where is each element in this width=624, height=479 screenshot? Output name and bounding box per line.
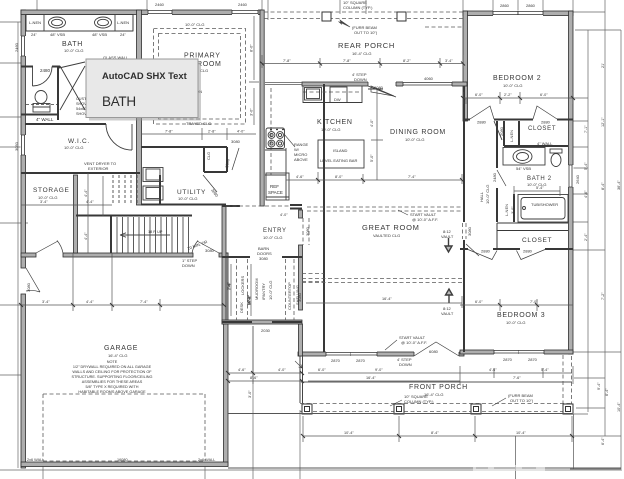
svg-text:7'-2": 7'-2"	[601, 292, 605, 300]
svg-text:3'-0": 3'-0"	[250, 108, 254, 116]
svg-text:3080: 3080	[305, 226, 310, 236]
entry cased opening dashed	[226, 205, 290, 207]
svg-text:FRONT PORCH: FRONT PORCH	[409, 384, 468, 391]
wall wic bottom	[21, 172, 140, 174]
right side dim verticals	[588, 12, 621, 469]
wall great room front	[298, 352, 464, 356]
entry east door dashed	[303, 218, 309, 245]
label range	[284, 134, 295, 147]
tooltip box	[86, 59, 198, 118]
wall laundry closet	[203, 147, 227, 172]
svg-text:3'-4": 3'-4"	[42, 300, 50, 304]
wall water closet east	[57, 66, 59, 120]
svg-text:16'-4": 16'-4"	[382, 297, 392, 301]
vault line dashed lower	[302, 279, 462, 283]
storage dim row	[21, 173, 112, 253]
window primary 2460 a	[148, 10, 172, 16]
svg-text:2860: 2860	[526, 3, 536, 8]
svg-text:CLOSET: CLOSET	[528, 126, 556, 132]
svg-text:7'-8": 7'-8"	[283, 59, 291, 63]
rear porch dim row	[262, 55, 463, 68]
french door chevron greatroom	[414, 342, 459, 356]
svg-text:4'-0": 4'-0"	[280, 213, 288, 217]
svg-text:REF: REF	[270, 184, 279, 189]
svg-text:3080: 3080	[26, 282, 31, 292]
svg-text:ABOVE: ABOVE	[294, 157, 308, 162]
svg-text:L-NEN: L-NEN	[509, 130, 514, 142]
svg-text:2880: 2880	[481, 249, 491, 254]
front porch column d	[563, 404, 573, 414]
svg-text:6080: 6080	[374, 85, 384, 90]
window bedroom2 2860 b	[518, 11, 543, 17]
svg-text:2860: 2860	[500, 3, 510, 8]
svg-text:10'-0" CLG: 10'-0" CLG	[263, 235, 283, 240]
svg-text:L-NEN: L-NEN	[117, 20, 129, 25]
svg-text:DOWN: DOWN	[182, 263, 195, 268]
wall bedroom2 top	[463, 11, 573, 16]
svg-text:3080: 3080	[259, 256, 269, 261]
wall utility bottom	[141, 204, 226, 206]
svg-text:2x6 WALL: 2x6 WALL	[198, 458, 215, 462]
svg-text:REAR PORCH: REAR PORCH	[338, 41, 395, 50]
svg-text:10'-0" CLG: 10'-0" CLG	[64, 48, 84, 53]
svg-text:10'-2": 10'-2"	[247, 295, 251, 305]
svg-text:5/8" TYPE X REQUIRED WITH: 5/8" TYPE X REQUIRED WITH	[86, 385, 139, 389]
door greatroom french 6080 opening	[414, 352, 459, 357]
svg-text:/PANTRY: /PANTRY	[261, 283, 266, 300]
front porch dim row bottom	[303, 416, 572, 442]
svg-text:L-NEN: L-NEN	[504, 204, 509, 216]
svg-text:4" WALL: 4" WALL	[537, 141, 553, 146]
svg-text:2'-2": 2'-2"	[504, 93, 512, 97]
kitchen range counter	[265, 148, 286, 175]
door utility 3080	[203, 175, 217, 192]
vault arrow down	[445, 238, 452, 252]
svg-text:16'-4" CLG: 16'-4" CLG	[352, 51, 372, 56]
svg-text:TUB/SHOWER: TUB/SHOWER	[531, 202, 558, 207]
garage dim row	[21, 253, 224, 311]
svg-text:8'-4": 8'-4"	[601, 182, 605, 190]
svg-text:9'-4": 9'-4"	[597, 382, 601, 390]
svg-text:7'-4": 7'-4"	[140, 300, 148, 304]
svg-text:10'-0" CLG: 10'-0" CLG	[321, 127, 341, 132]
svg-text:2x6 WALL: 2x6 WALL	[27, 458, 44, 462]
door garage service left	[26, 268, 40, 292]
svg-text:2870: 2870	[331, 358, 341, 363]
svg-text:CLOSET: CLOSET	[522, 237, 552, 244]
svg-text:2'-4": 2'-4"	[584, 233, 588, 241]
primary wing right dim	[249, 16, 259, 125]
wall utility east	[159, 175, 161, 204]
left edge extension ticks	[0, 22, 28, 375]
svg-text:ISLAND: ISLAND	[333, 148, 348, 153]
svg-text:2080: 2080	[499, 126, 504, 136]
left veneer line	[17, 22, 19, 468]
svg-text:STRUCTURE. SUPPORTING FLOOR/CE: STRUCTURE. SUPPORTING FLOOR/CEILING	[72, 375, 153, 379]
svg-text:4'-0": 4'-0"	[237, 130, 245, 134]
svg-text:2480: 2480	[40, 68, 51, 73]
svg-text:2870: 2870	[356, 358, 366, 363]
rear porch step edge	[265, 83, 302, 85]
dining vertical dim	[371, 88, 383, 180]
svg-text:2460: 2460	[155, 2, 165, 7]
svg-text:8'-4": 8'-4"	[431, 431, 439, 435]
sink oval bath1 b	[95, 17, 112, 28]
linen box right	[115, 15, 133, 32]
wall great room west	[323, 84, 325, 352]
svg-text:5'-4": 5'-4"	[541, 368, 549, 372]
svg-text:ASSEMBLIES FOR THESE AREAS: ASSEMBLIES FOR THESE AREAS	[82, 380, 143, 384]
rear sliding door leaf	[368, 86, 396, 97]
svg-text:COLUMN (TYP.): COLUMN (TYP.)	[404, 399, 434, 404]
svg-text:4'-0": 4'-0"	[278, 368, 286, 372]
kitchen dw	[330, 87, 347, 103]
wall primary/kitchen divider	[260, 10, 264, 206]
toilet bath1	[35, 91, 47, 104]
svg-text:10'-0" CLG: 10'-0" CLG	[485, 184, 490, 204]
svg-text:10'-4": 10'-4"	[344, 431, 354, 435]
front porch column a	[302, 404, 312, 414]
tub shower	[518, 195, 568, 223]
svg-text:OUT TO 10"): OUT TO 10")	[354, 30, 378, 35]
wall mudroom right / entry right	[299, 210, 303, 218]
svg-text:10'-0" CLG: 10'-0" CLG	[268, 280, 273, 300]
svg-text:7'-8": 7'-8"	[343, 59, 351, 63]
tray ceiling primary inner	[159, 34, 241, 120]
kitchen upper cabinets dashed	[271, 88, 362, 175]
wall bedroom3 front	[460, 350, 573, 354]
rear porch column b	[397, 12, 406, 21]
svg-text:10'-0" CLG: 10'-0" CLG	[185, 22, 205, 27]
svg-text:HALL: HALL	[479, 191, 484, 202]
svg-text:8'-0": 8'-0"	[250, 44, 254, 52]
svg-text:4'-6": 4'-6"	[584, 190, 588, 198]
svg-text:TRAYED CLG: TRAYED CLG	[186, 121, 211, 126]
svg-text:18 R UP: 18 R UP	[148, 230, 163, 234]
sink oval bath1 a	[49, 17, 66, 28]
svg-text:3080: 3080	[210, 188, 220, 199]
stoop side wall to porch	[300, 356, 303, 403]
svg-text:5'-0": 5'-0"	[370, 154, 374, 162]
svg-text:NOTE: NOTE	[107, 360, 118, 364]
svg-text:GARAGE: GARAGE	[104, 345, 138, 352]
svg-text:CLG: CLG	[206, 152, 211, 160]
svg-text:DOWN: DOWN	[399, 362, 412, 367]
wall garage bottom	[21, 462, 228, 467]
svg-text:24": 24"	[120, 32, 126, 37]
svg-text:3080: 3080	[231, 139, 241, 144]
rear porch ceiling dashed right part	[425, 26, 463, 28]
svg-text:L-NEN: L-NEN	[29, 20, 41, 25]
wall garage right	[224, 253, 229, 466]
svg-text:54x60: 54x60	[76, 107, 86, 111]
svg-text:36'-4": 36'-4"	[617, 180, 621, 190]
svg-text:6'-0": 6'-0"	[475, 300, 483, 304]
wall mudroom left	[222, 206, 226, 324]
svg-text:6080: 6080	[429, 349, 439, 354]
svg-text:ENTRY: ENTRY	[263, 228, 287, 234]
bottom ground line	[0, 469, 622, 471]
svg-text:DESK: DESK	[239, 302, 244, 313]
door closet 2080	[232, 148, 239, 170]
wall garage top	[21, 253, 36, 257]
mudroom inner dims	[231, 264, 251, 316]
svg-text:DINING ROOM: DINING ROOM	[390, 129, 446, 136]
wall entry top	[222, 205, 302, 209]
svg-text:KITCHEN: KITCHEN	[317, 119, 353, 126]
wall stair top	[76, 215, 192, 217]
door closet3 b	[517, 250, 546, 260]
window bedroom3 2870 a	[494, 350, 519, 355]
svg-text:5'-4": 5'-4"	[584, 162, 588, 170]
window primary 2460 b	[232, 10, 258, 16]
svg-text:3080: 3080	[467, 226, 472, 236]
svg-text:5'-4": 5'-4"	[536, 186, 544, 190]
top extension verticals	[37, 0, 366, 20]
svg-text:7'-1": 7'-1"	[584, 125, 588, 133]
door kitchen pantry 3080	[371, 86, 394, 96]
laundry dryer box	[143, 168, 163, 182]
wc vanity	[33, 107, 50, 112]
svg-text:3'-0": 3'-0"	[511, 206, 515, 214]
svg-text:6'-0": 6'-0"	[475, 93, 483, 97]
svg-text:8'-6": 8'-6"	[250, 376, 258, 380]
wall storage right	[74, 175, 78, 253]
mudroom lockers dashed	[237, 259, 248, 320]
svg-text:3080: 3080	[205, 248, 215, 253]
svg-text:VAULT: VAULT	[441, 234, 454, 239]
svg-text:16'-4": 16'-4"	[366, 376, 376, 380]
svg-text:10'-4": 10'-4"	[617, 402, 621, 412]
svg-text:2880: 2880	[541, 120, 551, 125]
wall mudroom bottom opening	[222, 321, 302, 323]
bath2 vanity	[503, 148, 545, 166]
svg-text:4'-4": 4'-4"	[84, 232, 88, 240]
svg-text:12'-1": 12'-1"	[601, 117, 605, 127]
wall bath south (water closet top)	[21, 66, 60, 68]
door rear sliding 6080 opening	[368, 82, 396, 87]
wall bath2 bottom / closet3 top	[497, 223, 568, 249]
wall rear of main house (behind porch)	[302, 82, 467, 86]
svg-text:2480: 2480	[492, 172, 497, 182]
svg-text:2880: 2880	[477, 120, 487, 125]
svg-text:VAULTED CLG: VAULTED CLG	[373, 233, 400, 238]
svg-text:BATH: BATH	[102, 94, 136, 109]
wall top (primary suite rear)	[21, 10, 262, 15]
svg-text:4'-6": 4'-6"	[238, 368, 246, 372]
svg-text:@ 10'-0" A.F.F.: @ 10'-0" A.F.F.	[412, 217, 438, 222]
tray ceiling primary outer	[154, 29, 246, 125]
vanity bath1 counter	[26, 15, 133, 32]
svg-text:7'-6": 7'-6"	[513, 376, 521, 380]
svg-text:8'-2": 8'-2"	[403, 59, 411, 63]
wall mudroom top w/ barn door opening	[222, 256, 302, 258]
svg-text:24": 24"	[31, 32, 37, 37]
utility top dim	[141, 128, 256, 140]
svg-text:UTILITY: UTILITY	[177, 189, 206, 196]
vault line dashed upper	[307, 207, 462, 211]
wall water closet bottom	[21, 114, 59, 116]
wall bath/primary divider	[137, 10, 142, 205]
door garage entry (from storage hall)	[36, 241, 63, 254]
kitchen island dim row	[286, 172, 462, 184]
kitchen sink	[305, 88, 322, 101]
window bath left 2460	[21, 36, 27, 56]
front porch dim rows top	[308, 366, 574, 479]
svg-text:4060: 4060	[424, 76, 434, 81]
svg-text:MUDROOM: MUDROOM	[254, 278, 259, 300]
svg-text:BEDROOM 3: BEDROOM 3	[497, 312, 545, 319]
svg-text:BATH: BATH	[62, 41, 83, 48]
door arc wic	[106, 124, 132, 150]
svg-text:PRIMARY: PRIMARY	[184, 53, 221, 60]
wall bath2 west	[496, 121, 498, 222]
svg-text:4'-0": 4'-0"	[370, 119, 374, 127]
laundry washer box	[143, 186, 163, 200]
svg-text:3050: 3050	[14, 141, 19, 151]
svg-text:4'-4": 4'-4"	[86, 300, 94, 304]
svg-text:21': 21'	[601, 63, 605, 68]
stoop corner arrow	[295, 361, 302, 368]
svg-text:6'-0": 6'-0"	[540, 93, 548, 97]
svg-text:10'-0" CLG: 10'-0" CLG	[405, 137, 425, 142]
svg-text:@ 10'-0" A.F.F.: @ 10'-0" A.F.F.	[401, 340, 427, 345]
wall left exterior	[21, 10, 26, 268]
svg-text:10'-0" CLG: 10'-0" CLG	[64, 145, 84, 150]
svg-text:DW: DW	[334, 97, 341, 102]
svg-text:6'-4": 6'-4"	[601, 437, 605, 445]
svg-text:AutoCAD SHX Text: AutoCAD SHX Text	[102, 70, 187, 81]
svg-text:W.I.C.: W.I.C.	[68, 138, 90, 145]
bath2 toilet	[551, 154, 561, 167]
wall closet3 bottom w/ 2 door openings	[460, 248, 573, 250]
verticals below garage	[43, 326, 300, 479]
svg-text:48" VSB: 48" VSB	[92, 32, 107, 37]
svg-text:2030: 2030	[261, 328, 271, 333]
window bedroom2 2860 a	[493, 11, 518, 17]
svg-text:10'-4": 10'-4"	[516, 431, 526, 435]
watermark	[473, 465, 545, 471]
range w burners	[266, 128, 285, 149]
bath2 inner dim	[514, 186, 560, 196]
door closet3 a	[468, 250, 497, 260]
svg-text:4'-4": 4'-4"	[84, 189, 88, 197]
tooltip shadow	[89, 62, 201, 121]
svg-text:7'-4": 7'-4"	[227, 282, 231, 290]
stair direction arrow	[120, 233, 170, 237]
svg-text:16'-4" CLG: 16'-4" CLG	[108, 353, 128, 358]
shower glass diagonal	[59, 62, 85, 110]
stair dashed upper run	[113, 175, 137, 204]
svg-text:COUNTERTOP: COUNTERTOP	[287, 282, 292, 310]
kitchen island	[318, 140, 364, 168]
window rear 4060	[403, 82, 452, 87]
svg-text:SPACE: SPACE	[268, 190, 283, 195]
svg-text:HABITABLE ROOMS ABOVE GARAGE: HABITABLE ROOMS ABOVE GARAGE	[78, 390, 146, 394]
wall utility top	[141, 146, 203, 148]
svg-text:BEDROOM 2: BEDROOM 2	[493, 75, 541, 82]
svg-text:54" VSB: 54" VSB	[516, 166, 531, 171]
svg-text:2'-8": 2'-8"	[208, 130, 216, 134]
bath2 sink oval	[513, 150, 532, 164]
wall linen/closet dividers (bed2)	[504, 121, 519, 146]
svg-text:4" WALL: 4" WALL	[36, 117, 54, 122]
svg-text:LOCKERS: LOCKERS	[240, 276, 245, 295]
svg-text:7'-8": 7'-8"	[165, 130, 173, 134]
ref space box	[266, 173, 289, 200]
door arc bedroom2 a	[470, 106, 494, 119]
rear porch column a	[322, 12, 331, 21]
front porch beam dashed	[300, 356, 572, 413]
hall pocket door dashed	[463, 223, 467, 239]
svg-text:EXTERIOR: EXTERIOR	[88, 166, 109, 171]
svg-text:DOWN: DOWN	[354, 77, 367, 82]
front porch slab lines	[228, 382, 621, 468]
bedroom3 dim row	[460, 299, 573, 311]
front porch column c	[471, 404, 481, 414]
svg-text:2080: 2080	[224, 158, 231, 168]
hall top dim	[465, 98, 467, 104]
wall stair left	[110, 215, 112, 253]
garage door dashed rect	[43, 394, 205, 461]
door leaf linen2	[494, 121, 502, 140]
svg-text:6'-4": 6'-4"	[605, 388, 609, 396]
svg-text:3'-4": 3'-4"	[445, 59, 453, 63]
svg-text:4'-6": 4'-6"	[296, 175, 304, 179]
stoop dim rows	[228, 326, 302, 384]
svg-text:WALLS AND CEILING FOR PROTECTI: WALLS AND CEILING FOR PROTECTION OF	[72, 370, 152, 374]
window greatroom 2870 a	[326, 352, 351, 357]
svg-text:3'-4": 3'-4"	[40, 200, 48, 204]
top-right extension verticals	[463, 0, 605, 13]
linen box left	[26, 15, 44, 32]
stair treads (up run)	[117, 217, 189, 253]
svg-text:VAULT: VAULT	[441, 311, 454, 316]
mudroom countertop/shelving dashed	[286, 259, 295, 320]
wall bedroom2 bottom	[463, 119, 573, 121]
svg-text:7'-0": 7'-0"	[530, 300, 538, 304]
svg-text:SHELVING: SHELVING	[295, 285, 300, 305]
svg-text:LEVEL EATING BAR: LEVEL EATING BAR	[320, 158, 357, 163]
wall right exterior	[569, 11, 574, 354]
svg-text:2640: 2640	[575, 174, 580, 184]
svg-text:OUT TO 10"): OUT TO 10")	[510, 398, 534, 403]
wall stoop top (mudroom bottom)	[222, 320, 302, 324]
bedroom2 dim row	[463, 92, 573, 104]
svg-text:2870: 2870	[528, 357, 538, 362]
window wic left 3050	[21, 135, 27, 155]
wall hall/dining east	[463, 86, 465, 352]
svg-text:CLG: CLG	[200, 68, 208, 73]
svg-text:16080: 16080	[117, 458, 128, 462]
door bedroom3	[466, 244, 479, 256]
window greatroom 2870 b	[351, 352, 377, 357]
svg-text:2460: 2460	[238, 2, 248, 7]
door garage 20min	[192, 241, 219, 254]
front porch column b	[394, 404, 404, 414]
svg-text:48" VSB: 48" VSB	[50, 32, 65, 37]
vault arrow up	[446, 289, 453, 303]
svg-text:9'-0": 9'-0"	[375, 368, 383, 372]
svg-text:3'-0": 3'-0"	[248, 390, 252, 398]
svg-text:10'-0" CLG: 10'-0" CLG	[506, 320, 526, 325]
svg-text:2460: 2460	[14, 42, 19, 52]
svg-text:4'-4": 4'-4"	[86, 200, 94, 204]
window bedroom3 2870 b	[519, 350, 544, 355]
kitchen sink counter	[303, 86, 362, 103]
wall closet bottom (bed2) / bath2 top	[504, 145, 568, 147]
greatroom dim row	[306, 296, 462, 308]
